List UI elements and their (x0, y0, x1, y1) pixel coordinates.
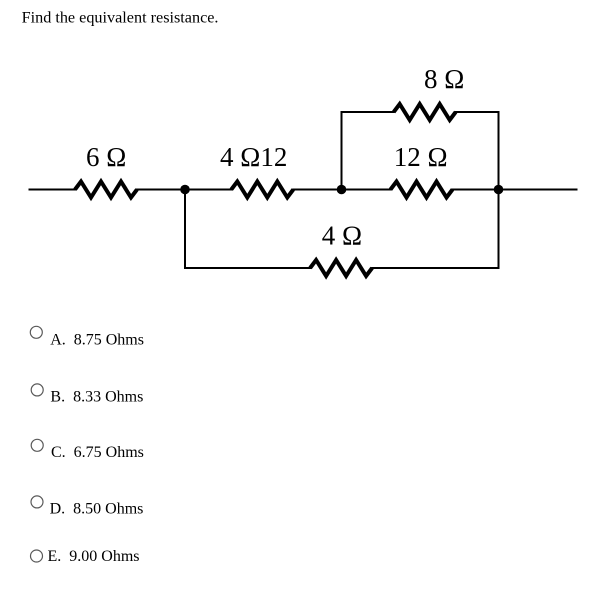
resistor R3 (8 ohm) (394, 104, 456, 120)
wire right branch down to node C (498, 112, 500, 190)
svg-text:C. 6.75 Ohms: C. 6.75 Ohms (51, 444, 144, 461)
wire node B to R4 (342, 189, 392, 191)
wire top right (455, 111, 500, 113)
svg-text:6 Ω: 6 Ω (86, 142, 126, 172)
node B junction (337, 185, 347, 195)
wire R1 to node A (136, 189, 185, 191)
radio button option C (31, 439, 43, 451)
svg-text:B. 8.33 Ohms: B. 8.33 Ohms (50, 388, 143, 405)
resistor R5 (4 ohm bottom) (310, 260, 372, 276)
svg-text:D. 8.50 Ohms: D. 8.50 Ohms (50, 501, 144, 518)
svg-text:12 Ω: 12 Ω (394, 142, 448, 172)
svg-text:8 Ω: 8 Ω (424, 64, 464, 94)
wire right lead (499, 189, 578, 191)
svg-text:4 Ω: 4 Ω (322, 221, 362, 251)
svg-text:Find the equivalent resistance: Find the equivalent resistance. (22, 9, 219, 27)
svg-text:E. 9.00 Ohms: E. 9.00 Ohms (48, 548, 140, 565)
svg-text:A. 8.75 Ohms: A. 8.75 Ohms (50, 332, 144, 349)
wire R4 to node C (452, 189, 499, 191)
radio button option B (31, 384, 43, 396)
radio button option A (30, 326, 42, 338)
radio button option E (31, 550, 43, 562)
wire R2 to node B (292, 189, 341, 191)
wire node B up (341, 112, 343, 190)
radio button option D (31, 496, 43, 508)
wire node A to R2 (185, 189, 233, 191)
wire left lead (29, 189, 77, 191)
wire bottom left (184, 267, 311, 269)
wire bottom right (371, 267, 499, 269)
resistor R2 (4 ohm) (231, 182, 293, 198)
node C junction (494, 185, 504, 195)
wire top left (341, 111, 395, 113)
wire node A down (184, 190, 186, 270)
svg-text:4 Ω12: 4 Ω12 (220, 142, 287, 172)
node A junction (180, 185, 190, 195)
resistor R4 (12 ohm) (391, 182, 453, 198)
wire node C down (498, 190, 500, 270)
resistor R1 (6 ohm) (75, 182, 137, 198)
